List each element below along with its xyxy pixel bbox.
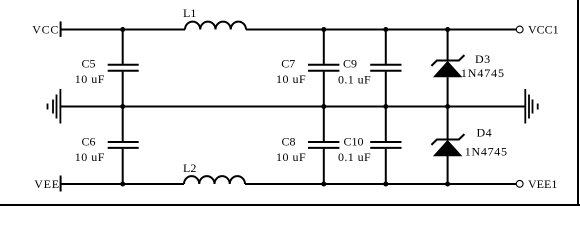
svg-text:10 uF: 10 uF: [75, 72, 105, 86]
svg-text:C9: C9: [343, 56, 357, 70]
svg-text:C7: C7: [281, 56, 295, 70]
svg-text:C5: C5: [82, 56, 96, 70]
svg-text:C6: C6: [82, 135, 96, 149]
svg-text:C10: C10: [344, 135, 364, 149]
svg-text:C8: C8: [282, 135, 296, 149]
svg-text:VCC1: VCC1: [528, 23, 559, 37]
svg-text:0.1 uF: 0.1 uF: [338, 72, 371, 86]
svg-text:L2: L2: [183, 161, 196, 175]
svg-text:VEE1: VEE1: [528, 177, 557, 191]
svg-text:D3: D3: [475, 52, 490, 66]
svg-text:D4: D4: [477, 126, 492, 140]
svg-text:VEE: VEE: [34, 177, 59, 191]
svg-text:10 uF: 10 uF: [75, 150, 105, 164]
svg-text:10 uF: 10 uF: [276, 150, 306, 164]
svg-text:1N4745: 1N4745: [465, 145, 508, 159]
svg-text:0.1 uF: 0.1 uF: [338, 150, 371, 164]
svg-text:10 uF: 10 uF: [276, 72, 306, 86]
svg-text:1N4745: 1N4745: [461, 66, 505, 80]
svg-text:L1: L1: [183, 6, 196, 20]
svg-text:VCC: VCC: [32, 23, 59, 37]
